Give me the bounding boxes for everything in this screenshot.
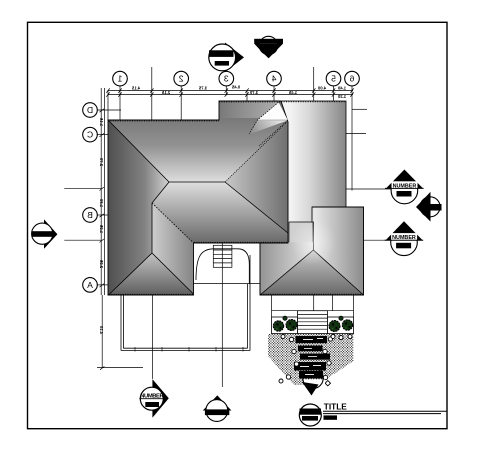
right marker A (triangle up) (385, 170, 424, 204)
svg-text:3: 3 (224, 74, 229, 84)
main roof north facet (108, 101, 288, 182)
svg-text:B: B (87, 210, 93, 220)
hip roof lower right (260, 207, 364, 295)
svg-text:2: 2 (179, 74, 184, 84)
left dimension chain lower extension (101, 295, 103, 368)
leader to marker M1 (151, 296, 153, 379)
main roof west facet (108, 120, 169, 295)
svg-text:A: A (87, 280, 93, 290)
arch stair (213, 245, 232, 267)
grid bubble C (83, 127, 98, 142)
bush 2 (286, 320, 297, 331)
blob white slits (300, 338, 323, 375)
wing hip dashed (152, 203, 194, 243)
center line through arch (221, 243, 223, 387)
grid line x=151.8 (151, 67, 153, 120)
left bubble extension lines (64, 110, 121, 285)
svg-text:2.25: 2.25 (99, 259, 104, 268)
dimension ticks top (106, 88, 353, 96)
leader to marker C (364, 239, 391, 241)
grid bubble B (83, 208, 98, 223)
grid bubble 6 (345, 71, 360, 86)
svg-text:4: 4 (271, 74, 276, 84)
leader to marker A (346, 188, 391, 190)
wall U double lines (121, 255, 250, 351)
svg-text:NUMBER: NUMBER (392, 235, 416, 241)
top edge texture (108, 120, 219, 122)
wing hip BL (109, 253, 153, 295)
bush 1 (273, 321, 283, 331)
bush small left (283, 316, 287, 320)
grid bubble 2 (174, 71, 189, 86)
svg-text:C: C (87, 130, 93, 140)
top dimension line upper (108, 90, 354, 92)
entry arch (194, 249, 261, 284)
svg-text:2.70: 2.70 (99, 157, 104, 166)
title underline double (323, 410, 447, 412)
svg-text:1.40: 1.40 (337, 86, 346, 91)
svg-text:1.15: 1.15 (99, 117, 104, 126)
title bubble (299, 404, 321, 426)
left dimension ticks (100, 109, 105, 370)
svg-text:TITLE: TITLE (324, 401, 348, 411)
right marker C (triangle up) (385, 221, 424, 255)
white wedge notch (258, 102, 288, 120)
section marker top (arrow right) (209, 43, 244, 73)
main roof east facet (225, 122, 288, 233)
ridge to wing (152, 182, 169, 203)
planter left (272, 317, 298, 334)
hip line TL (108, 120, 169, 182)
small diamond mark (325, 381, 330, 386)
left dimension texts (mirrored rotated) (99, 117, 104, 334)
wall ticks (135, 347, 243, 352)
ridge line (169, 181, 225, 183)
porch below hip roof (272, 296, 354, 334)
wing hip BR (152, 253, 194, 294)
annotation blob rows over stair (294, 336, 330, 379)
grid bubble stems (108, 86, 352, 191)
top dimension texts (mirrored) (131, 85, 346, 100)
top dimension line lower (108, 94, 354, 96)
bottom marker M2 (triangle up) (203, 395, 232, 421)
right marker B (triangle left) (416, 192, 442, 222)
svg-text:4.10: 4.10 (99, 325, 104, 334)
grid line x=313.7 vertical centerline (313, 67, 315, 101)
left dimension chain double lines (100, 88, 102, 295)
svg-text:3.70: 3.70 (249, 90, 258, 95)
grid bubble 3 (219, 71, 234, 86)
hip line BR (225, 182, 288, 233)
svg-text:3.75: 3.75 (198, 86, 207, 91)
grid bubble 5 (326, 71, 341, 86)
wing east facet (152, 203, 194, 294)
stipple paving (268, 334, 354, 385)
main roof bump shading (219, 101, 281, 118)
svg-text:4.00: 4.00 (317, 86, 326, 91)
elevation marker top (triangle down) (254, 36, 283, 58)
title scale text (324, 415, 338, 419)
bottom section marker (302, 368, 325, 395)
left marker (arrow right) (32, 219, 58, 248)
main roof south facet (152, 182, 288, 243)
svg-text:2.15: 2.15 (161, 90, 170, 95)
grid bubble D (83, 103, 98, 118)
svg-text:1: 1 (117, 74, 122, 84)
svg-text:4.15: 4.15 (131, 86, 140, 91)
svg-text:1.20: 1.20 (337, 94, 346, 99)
bush small right (339, 316, 343, 320)
svg-text:1.45: 1.45 (288, 90, 297, 95)
svg-text:6: 6 (349, 74, 354, 84)
right stub lines (352, 108, 367, 110)
grid bubble 1 (113, 71, 128, 86)
bush 3 (329, 321, 340, 332)
grid bubble A (83, 278, 98, 293)
svg-text:5: 5 (331, 74, 336, 84)
main roof outline (108, 101, 288, 295)
svg-text:1.30: 1.30 (99, 198, 104, 207)
blob bullet circles (279, 335, 352, 384)
bush 4 (342, 320, 352, 330)
svg-text:1.25: 1.25 (99, 224, 104, 233)
hip line TR dotted (225, 122, 287, 182)
border frame (28, 22, 448, 428)
grid bubble 4 (267, 71, 282, 86)
entry stair (298, 311, 328, 334)
planter right (328, 317, 354, 334)
svg-text:NUMBER: NUMBER (393, 183, 417, 189)
wing ridge vertical (151, 203, 153, 253)
bottom marker M1 (arrow right diamond) (139, 379, 169, 418)
svg-text:0.45: 0.45 (231, 85, 240, 90)
svg-text:D: D (87, 105, 93, 115)
wing south facet (109, 253, 194, 295)
flat roof strip upper right (262, 101, 346, 243)
main roof (108, 101, 288, 295)
